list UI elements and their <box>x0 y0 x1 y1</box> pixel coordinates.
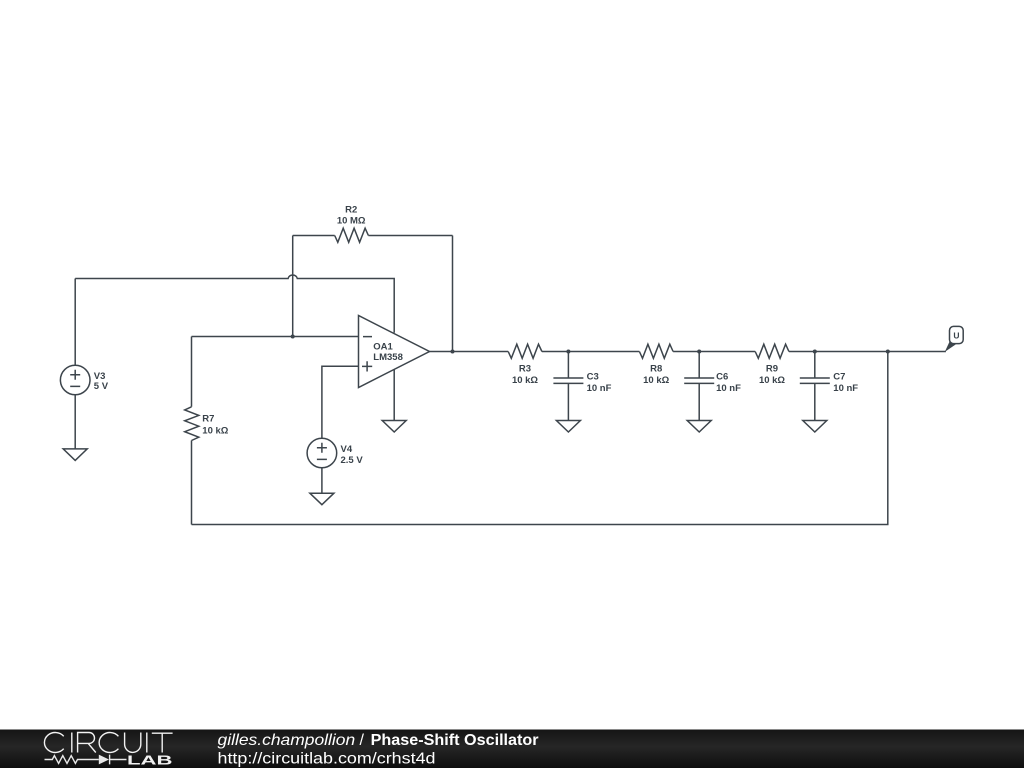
wire: V3 positive rail to op-amp V+ pin (hops over R2 branch) <box>75 275 394 333</box>
junction dot: node R9/C7 <box>813 350 817 354</box>
svg-text:OA1: OA1 <box>373 341 393 352</box>
svg-text:gilles.champollion: gilles.champollion <box>218 732 356 749</box>
ground (below V3) <box>63 449 87 461</box>
svg-text:10 nF: 10 nF <box>587 383 612 394</box>
resistor R2, 10 MΩ (feedback) <box>293 205 453 243</box>
svg-text:5 V: 5 V <box>94 381 109 392</box>
wire: feedback from output node down and back to R7 <box>192 352 888 525</box>
svg-text:R7: R7 <box>202 414 214 425</box>
ground (below C7) <box>803 421 827 433</box>
ground (below C3) <box>556 421 580 433</box>
wire: R2 left branch down to inverting node <box>292 236 294 337</box>
svg-text:C3: C3 <box>587 371 599 382</box>
wire: non-inverting input to V4 <box>322 366 359 438</box>
svg-text:/: / <box>360 732 365 749</box>
wire: R8 to R9 <box>673 351 755 353</box>
resistor R7, 10 kΩ <box>185 337 229 525</box>
svg-text:C7: C7 <box>833 371 845 382</box>
svg-text:LM358: LM358 <box>373 352 403 363</box>
svg-text:10 kΩ: 10 kΩ <box>512 375 538 386</box>
wire: inverting input rail <box>192 336 359 338</box>
junction dot: inverting input node <box>291 335 295 339</box>
svg-text:C6: C6 <box>716 371 728 382</box>
svg-text:2.5 V: 2.5 V <box>341 455 364 466</box>
ground (below C6) <box>687 421 711 433</box>
resistor R3, 10 kΩ <box>508 344 542 386</box>
wire: R3 to R8 <box>542 351 640 353</box>
voltage source V3, 5 V <box>60 279 108 449</box>
ground (op-amp negative supply) <box>382 421 406 433</box>
svg-text:10 kΩ: 10 kΩ <box>643 375 669 386</box>
capacitor C6, 10 nF <box>684 352 741 421</box>
svg-text:Phase-Shift Oscillator: Phase-Shift Oscillator <box>371 732 539 749</box>
wire: R2 right branch down to output node <box>452 236 454 352</box>
junction dot: feedback node <box>886 350 890 354</box>
svg-text:10 nF: 10 nF <box>833 383 858 394</box>
svg-text:R2: R2 <box>345 205 357 216</box>
junction dot: output node <box>451 350 455 354</box>
svg-text:U: U <box>953 331 959 341</box>
junction dot: node R3/C3 <box>566 350 570 354</box>
capacitor C7, 10 nF <box>800 352 859 421</box>
resistor R9, 10 kΩ <box>755 344 789 386</box>
svg-text:R3: R3 <box>519 364 531 375</box>
svg-text:http://circuitlab.com/crhst4d: http://circuitlab.com/crhst4d <box>218 750 436 767</box>
svg-text:R9: R9 <box>766 364 778 375</box>
wire: OA1 output to R3 <box>430 351 509 353</box>
svg-text:V4: V4 <box>341 444 353 455</box>
svg-text:10 nF: 10 nF <box>716 383 741 394</box>
wire: R9 to output flag <box>789 351 946 353</box>
svg-text:LAB: LAB <box>127 752 173 767</box>
junction dot: node R8/C6 <box>697 350 701 354</box>
svg-text:R8: R8 <box>650 364 662 375</box>
ground (below V4) <box>310 493 334 505</box>
svg-text:10 kΩ: 10 kΩ <box>759 375 785 386</box>
op-amp OA1 LM358 <box>359 316 430 421</box>
output flag U <box>945 326 963 352</box>
CircuitLab logo: CIRCUIT wordmark <box>44 732 172 752</box>
resistor R8, 10 kΩ <box>639 344 673 386</box>
footer bar <box>0 730 1024 768</box>
svg-text:10 MΩ: 10 MΩ <box>337 215 366 226</box>
voltage source V4, 2.5 V <box>307 438 363 493</box>
capacitor C3, 10 nF <box>553 352 611 421</box>
CircuitLab logo: resistor-diode glyph <box>45 755 127 765</box>
svg-text:V3: V3 <box>94 371 106 382</box>
svg-text:10 kΩ: 10 kΩ <box>202 426 228 437</box>
